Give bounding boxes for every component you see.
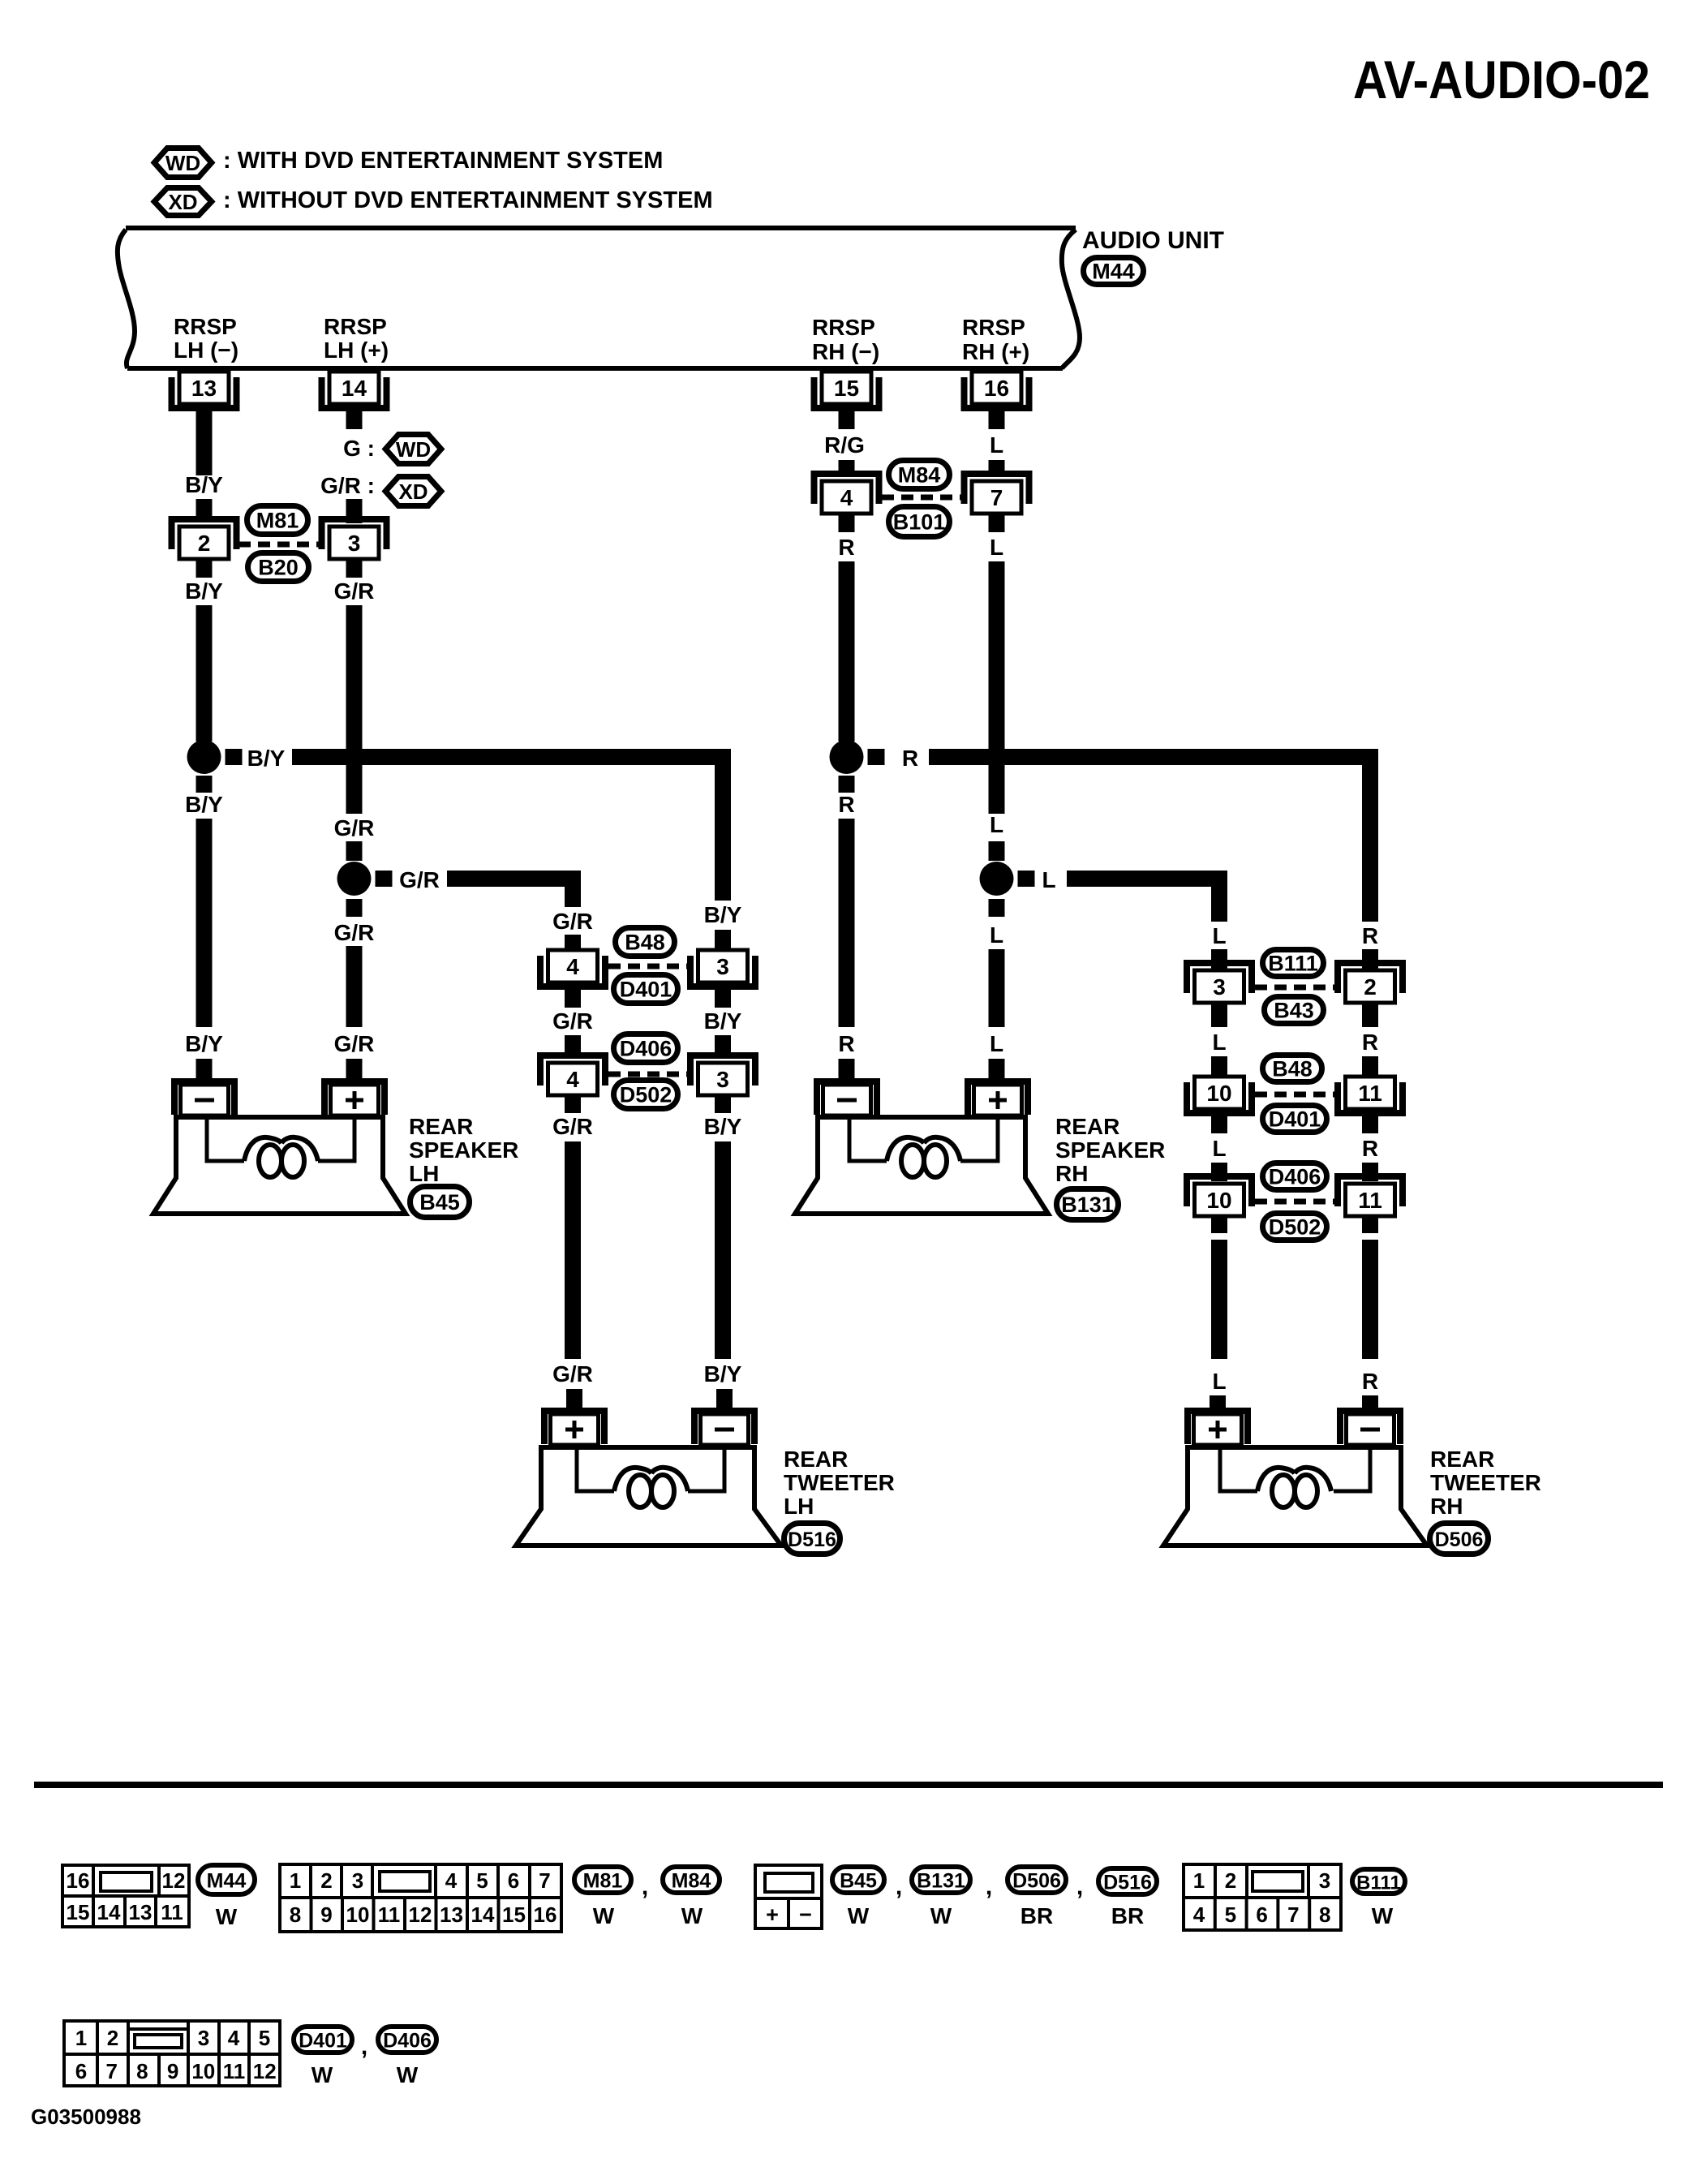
- wire G/R stub above connector 4: [565, 935, 581, 948]
- rear tweeter RH body: [1163, 1447, 1427, 1546]
- svg-text:10: 10: [191, 2059, 215, 2083]
- wire L branch horizontal and corner down: [1067, 879, 1219, 922]
- wire L stub: [1211, 1056, 1227, 1075]
- svg-text:11: 11: [1358, 1188, 1382, 1213]
- wire L stub: [1211, 1163, 1227, 1181]
- svg-text:B/Y: B/Y: [185, 472, 223, 497]
- svg-text:,: ,: [986, 1873, 992, 1900]
- connector id D406: [1263, 1163, 1327, 1190]
- inline connector link D406/D502: [608, 1072, 687, 1077]
- rear tweeter LH terminal -: [694, 1411, 754, 1445]
- rear speaker LH coil: [259, 1145, 281, 1177]
- junction node B/Y: [187, 740, 221, 774]
- connector id D502: [1263, 1214, 1327, 1240]
- svg-text:D506: D506: [1012, 1870, 1061, 1893]
- svg-text:M84: M84: [898, 463, 941, 488]
- svg-text:D502: D502: [620, 1083, 672, 1107]
- wire G/R stub above connector 4 second: [565, 1035, 581, 1055]
- svg-text:G/R: G/R: [334, 815, 375, 840]
- wire B/Y between connectors: [715, 984, 731, 1008]
- svg-text:G/R: G/R: [334, 578, 375, 604]
- svg-text:3: 3: [348, 531, 361, 556]
- svg-text:D506: D506: [1435, 1528, 1484, 1551]
- svg-text:B/Y: B/Y: [247, 746, 286, 771]
- wire L stub above connector 3: [1211, 949, 1227, 969]
- inline connector link D406/D502 right: [1255, 1199, 1334, 1205]
- rear tweeter LH label: [784, 1447, 895, 1519]
- wire B/Y stub above connector 2: [196, 499, 213, 520]
- wire B/Y down to speaker: [196, 819, 213, 1027]
- connector id D516 face: [1098, 1868, 1157, 1894]
- svg-text:L: L: [990, 535, 1003, 560]
- svg-text:15: 15: [67, 1900, 90, 1924]
- svg-text:10: 10: [346, 1902, 370, 1927]
- wire R down to speaker: [839, 819, 855, 1027]
- connector B48/D401 pin 3: [690, 950, 755, 987]
- svg-text:4: 4: [566, 954, 579, 979]
- connector id D401 face: [294, 2027, 352, 2053]
- wire B/Y stub above connector 3 second: [715, 1035, 731, 1055]
- svg-text:B131: B131: [1061, 1193, 1114, 1217]
- rear speaker LH internal wiring: [207, 1117, 244, 1161]
- wire G/R down to speaker: [346, 946, 363, 1027]
- svg-text:R: R: [1362, 1030, 1378, 1055]
- junction node R: [830, 740, 864, 774]
- connector id B131 face: [912, 1867, 970, 1893]
- wire G/R stub into speaker terminal: [346, 1059, 363, 1079]
- svg-text:B131: B131: [917, 1870, 965, 1893]
- wire R stub below junction: [839, 776, 855, 793]
- svg-text:R: R: [1362, 923, 1378, 948]
- svg-text:13: 13: [129, 1900, 153, 1924]
- svg-text:RH: RH: [1430, 1494, 1463, 1519]
- svg-text:8: 8: [290, 1902, 301, 1927]
- svg-text:R: R: [902, 746, 918, 771]
- svg-text:B101: B101: [893, 510, 946, 535]
- svg-text:D516: D516: [788, 1528, 836, 1551]
- connector face B111: [1184, 1864, 1341, 1930]
- svg-text:RH: RH: [1055, 1161, 1088, 1186]
- wire G/R long down to tweeter: [565, 1141, 581, 1359]
- rear tweeter LH coil: [629, 1475, 651, 1507]
- wire L long down to tweeter: [1211, 1216, 1227, 1233]
- svg-text:2: 2: [107, 2026, 118, 2050]
- svg-text:9: 9: [167, 2059, 178, 2083]
- svg-text:12: 12: [162, 1868, 186, 1893]
- connector id D506 face: [1008, 1867, 1066, 1893]
- inline connector link B48/D401: [608, 964, 687, 969]
- svg-text:B/Y: B/Y: [185, 1031, 223, 1056]
- wire G/R stub above junction: [346, 841, 363, 861]
- svg-text:5: 5: [476, 1868, 488, 1893]
- svg-text:1: 1: [1193, 1868, 1205, 1893]
- wire R stub: [1362, 1163, 1378, 1181]
- svg-text:B/Y: B/Y: [185, 792, 223, 817]
- svg-text:B45: B45: [419, 1190, 460, 1215]
- connector M81/B20 pin 3: [322, 519, 387, 559]
- svg-text:,: ,: [1076, 1873, 1083, 1900]
- wire G/R branch dash after junction: [376, 871, 393, 887]
- wire B/Y below connector: [715, 1095, 731, 1113]
- svg-text:11: 11: [223, 2059, 246, 2083]
- audio unit pin 14: [322, 372, 387, 408]
- connector id D506: [1430, 1524, 1489, 1554]
- svg-text:AV-AUDIO-02: AV-AUDIO-02: [1353, 49, 1650, 110]
- svg-text:R: R: [1362, 1369, 1378, 1394]
- connector id D401: [1263, 1106, 1327, 1133]
- svg-text:R: R: [838, 1031, 854, 1056]
- svg-text:: WITH DVD ENTERTAINMENT SYSTE: : WITH DVD ENTERTAINMENT SYSTEM: [223, 148, 663, 174]
- connector id B45 face: [832, 1867, 884, 1893]
- svg-text:REAR: REAR: [409, 1114, 473, 1139]
- svg-text:LH (+): LH (+): [324, 337, 389, 363]
- rear speaker LH label: [409, 1114, 518, 1186]
- svg-text:B/Y: B/Y: [704, 1114, 742, 1139]
- audio unit pin 16: [965, 372, 1029, 408]
- rear speaker LH terminal -: [174, 1081, 234, 1116]
- connector D406/D502 pin 11: [1338, 1176, 1403, 1216]
- wire L stub into speaker terminal: [989, 1059, 1005, 1079]
- wire L down to junction: [989, 561, 1005, 814]
- svg-text:3: 3: [1319, 1868, 1330, 1893]
- svg-text:RH (−): RH (−): [812, 339, 879, 364]
- wire G/R stub above connector 3: [346, 499, 363, 523]
- svg-text:D516: D516: [1103, 1872, 1152, 1894]
- audio unit pin 13: [172, 372, 237, 408]
- wire G/R branch horizontal and corner down: [447, 879, 573, 907]
- inline connector link B48/D401 right: [1255, 1092, 1334, 1098]
- svg-text:−: −: [799, 1902, 812, 1927]
- connector face speaker terminals: [755, 1865, 822, 1928]
- svg-text:9: 9: [320, 1902, 332, 1927]
- connector M84/B101 pin 7: [965, 474, 1029, 514]
- wire B/Y branch dash after junction: [226, 749, 243, 765]
- svg-text:RRSP: RRSP: [962, 315, 1025, 340]
- svg-text:7: 7: [990, 485, 1003, 510]
- wire R stub into speaker terminal: [839, 1059, 855, 1079]
- wire B/Y stub into tweeter terminal: [716, 1389, 733, 1412]
- svg-text:RRSP: RRSP: [174, 314, 237, 339]
- pin label RRSP RH (+): [962, 315, 1029, 364]
- option symbol XD: [385, 477, 441, 506]
- svg-text:13: 13: [191, 376, 217, 401]
- rear tweeter RH label: [1430, 1447, 1541, 1519]
- separator line: [34, 1782, 1663, 1788]
- svg-text:D406: D406: [383, 2030, 432, 2053]
- rear tweeter RH internal wiring: [1220, 1447, 1257, 1491]
- svg-text:14: 14: [342, 376, 367, 401]
- svg-text:SPEAKER: SPEAKER: [409, 1137, 518, 1163]
- wire R between connectors: [1362, 1111, 1378, 1133]
- wire L between connectors: [1211, 1111, 1227, 1133]
- connector B111/B43 pin 2: [1338, 963, 1403, 1003]
- svg-text:TWEETER: TWEETER: [1430, 1470, 1541, 1495]
- connector id B101: [889, 507, 950, 537]
- connector id D406: [614, 1034, 678, 1063]
- svg-text:3: 3: [716, 1067, 729, 1092]
- svg-text:4: 4: [445, 1868, 458, 1893]
- svg-text:B/Y: B/Y: [704, 1361, 742, 1386]
- svg-text:2: 2: [1225, 1868, 1236, 1893]
- connector id M44: [1084, 258, 1144, 285]
- svg-text:D502: D502: [1269, 1215, 1321, 1240]
- svg-text:,: ,: [361, 2033, 367, 2060]
- svg-text:3: 3: [352, 1868, 363, 1893]
- audio unit box: [118, 228, 1080, 368]
- svg-text:W: W: [848, 1903, 870, 1928]
- svg-text:6: 6: [75, 2059, 87, 2083]
- svg-text:1: 1: [290, 1868, 301, 1893]
- svg-text:4: 4: [228, 2026, 240, 2050]
- svg-text:L: L: [1212, 1136, 1226, 1161]
- wire B/Y long down to tweeter: [715, 1141, 731, 1359]
- rear speaker RH body: [795, 1117, 1048, 1214]
- connector id B111: [1263, 950, 1324, 977]
- svg-text:+: +: [766, 1902, 779, 1927]
- svg-text:D406: D406: [620, 1037, 672, 1061]
- svg-text:L: L: [990, 812, 1003, 837]
- wire L branch dash after junction: [1018, 871, 1035, 887]
- svg-text:D401: D401: [1269, 1107, 1321, 1132]
- svg-text:W: W: [681, 1903, 703, 1928]
- legend symbol XD: [154, 188, 212, 216]
- svg-text:L: L: [990, 922, 1003, 948]
- connector D406/D502 pin 3: [690, 1055, 755, 1095]
- connector id D502: [614, 1081, 678, 1109]
- svg-text:B43: B43: [1274, 999, 1314, 1023]
- connector B111/B43 pin 3: [1187, 963, 1252, 1003]
- svg-text:XD: XD: [398, 479, 428, 504]
- wire G/R below connector: [565, 1095, 581, 1113]
- svg-text:R: R: [838, 535, 854, 560]
- wire R stub above connector 2: [1362, 949, 1378, 969]
- svg-text:RRSP: RRSP: [324, 314, 387, 339]
- svg-text:6: 6: [1256, 1902, 1267, 1927]
- svg-text:G/R: G/R: [552, 1008, 593, 1034]
- connector id M81 face: [574, 1867, 631, 1893]
- rear speaker RH terminal +: [968, 1081, 1028, 1116]
- wire G/R below connector 3: [346, 559, 363, 578]
- svg-text:16: 16: [984, 376, 1009, 401]
- svg-text:W: W: [930, 1903, 952, 1928]
- svg-text:15: 15: [834, 376, 859, 401]
- connector id B48: [616, 928, 675, 957]
- svg-text:G/R: G/R: [552, 909, 593, 934]
- rear speaker RH terminal -: [817, 1081, 877, 1116]
- svg-text:W: W: [312, 2062, 333, 2087]
- svg-text:M44: M44: [1092, 260, 1135, 284]
- wire G/R stub into tweeter terminal: [566, 1389, 582, 1412]
- connector id B20: [248, 553, 309, 582]
- junction node G/R: [337, 862, 372, 896]
- rear speaker RH internal wiring: [849, 1117, 887, 1161]
- svg-text:2: 2: [1364, 974, 1377, 1000]
- svg-text:11: 11: [378, 1902, 401, 1927]
- wire R between connectors: [1362, 1004, 1378, 1027]
- connector id M84: [889, 461, 950, 489]
- svg-text:,: ,: [642, 1873, 648, 1900]
- wire L below connector 7: [989, 514, 1005, 532]
- svg-text:3: 3: [716, 954, 729, 979]
- svg-text:G/R: G/R: [552, 1361, 593, 1386]
- rear tweeter RH terminal -: [1340, 1411, 1400, 1445]
- svg-text:B45: B45: [840, 1870, 877, 1893]
- svg-text:L: L: [1212, 1030, 1226, 1055]
- connector id B43: [1265, 997, 1324, 1024]
- svg-text:4: 4: [566, 1067, 579, 1092]
- svg-text:4: 4: [1193, 1902, 1205, 1927]
- rear speaker LH body: [153, 1117, 406, 1214]
- svg-text:M44: M44: [207, 1870, 247, 1893]
- audio unit pin 15: [814, 372, 879, 408]
- svg-text:W: W: [593, 1903, 615, 1928]
- svg-text:XD: XD: [168, 190, 197, 214]
- svg-text:RH (+): RH (+): [962, 339, 1029, 364]
- svg-text:R: R: [1362, 1136, 1378, 1161]
- rear speaker RH label: [1055, 1114, 1165, 1186]
- connector face D401/D406: [64, 2021, 280, 2086]
- svg-text:3: 3: [198, 2026, 209, 2050]
- svg-text:L: L: [990, 1031, 1003, 1056]
- wire L stub above connector 7: [989, 460, 1005, 475]
- svg-text:8: 8: [136, 2059, 148, 2083]
- connector id M84 face: [663, 1867, 720, 1893]
- svg-text:R/G: R/G: [824, 432, 865, 458]
- wire from pin 15: [839, 406, 855, 429]
- svg-text:WD: WD: [396, 437, 431, 462]
- svg-text:W: W: [1372, 1903, 1394, 1928]
- wire B/Y stub into speaker terminal: [196, 1059, 213, 1079]
- svg-text:12: 12: [409, 1902, 432, 1927]
- wire L stub into tweeter terminal: [1210, 1395, 1226, 1415]
- svg-text:1: 1: [75, 2026, 87, 2050]
- svg-text:B/Y: B/Y: [185, 578, 223, 604]
- svg-text:G03500988: G03500988: [31, 2104, 141, 2129]
- wire R branch dash after junction: [868, 749, 885, 765]
- wire L stub above junction: [989, 841, 1005, 861]
- svg-text:L: L: [990, 432, 1003, 458]
- svg-text:5: 5: [1225, 1902, 1236, 1927]
- svg-text:G/R: G/R: [334, 1031, 375, 1056]
- rear tweeter LH body: [516, 1447, 781, 1546]
- svg-text:4: 4: [840, 485, 853, 510]
- svg-text:M81: M81: [583, 1870, 623, 1893]
- inline connector link M81/B20: [238, 542, 323, 548]
- inline connector link B111/B43: [1255, 985, 1334, 991]
- svg-text:7: 7: [105, 2059, 117, 2083]
- svg-text:B48: B48: [625, 931, 665, 955]
- wire B/Y below connector 2: [196, 559, 213, 578]
- rear speaker LH terminal +: [324, 1081, 385, 1116]
- svg-text:3: 3: [1213, 974, 1226, 1000]
- svg-text:16: 16: [534, 1902, 557, 1927]
- legend symbol WD: [154, 148, 212, 178]
- svg-text:REAR: REAR: [784, 1447, 848, 1472]
- svg-text:B48: B48: [1272, 1057, 1313, 1081]
- svg-text:BR: BR: [1021, 1903, 1053, 1928]
- svg-text:B111: B111: [1356, 1872, 1401, 1894]
- svg-text:REAR: REAR: [1430, 1447, 1494, 1472]
- rear tweeter LH terminal +: [544, 1411, 604, 1445]
- svg-text:B/Y: B/Y: [704, 902, 742, 927]
- svg-text:D401: D401: [299, 2030, 347, 2053]
- svg-text:16: 16: [67, 1868, 90, 1893]
- svg-text:D406: D406: [1269, 1165, 1321, 1189]
- connector face M81/M84: [280, 1864, 561, 1932]
- svg-text:11: 11: [1358, 1081, 1382, 1106]
- connector D406/D502 pin 4: [540, 1055, 605, 1095]
- svg-text:G/R: G/R: [399, 867, 440, 892]
- svg-text:7: 7: [539, 1868, 550, 1893]
- svg-text:10: 10: [1206, 1188, 1231, 1213]
- connector id B131: [1057, 1189, 1119, 1220]
- svg-text:14: 14: [471, 1902, 495, 1927]
- svg-text:8: 8: [1319, 1902, 1330, 1927]
- connector id D516: [784, 1524, 840, 1554]
- svg-text:D401: D401: [620, 978, 672, 1002]
- wire B/Y stub below junction: [196, 776, 213, 793]
- svg-text:B111: B111: [1268, 952, 1318, 976]
- svg-text:,: ,: [896, 1873, 902, 1900]
- rear tweeter RH terminal +: [1188, 1411, 1248, 1445]
- svg-text:M81: M81: [256, 509, 299, 533]
- svg-text:SPEAKER: SPEAKER: [1055, 1137, 1165, 1163]
- svg-text:L: L: [1212, 923, 1226, 948]
- svg-text:WD: WD: [165, 151, 200, 175]
- svg-text:11: 11: [161, 1900, 183, 1924]
- svg-text:M84: M84: [672, 1870, 711, 1893]
- pin label RRSP LH (+): [324, 314, 389, 363]
- junction node L: [980, 862, 1014, 896]
- wire R branch horizontal and corner down: [929, 757, 1370, 922]
- wire G/R stub below junction: [346, 899, 363, 917]
- wire from pin 14: [346, 406, 363, 429]
- svg-text:L: L: [1212, 1369, 1226, 1394]
- svg-text:: WITHOUT DVD ENTERTAINMENT SY: : WITHOUT DVD ENTERTAINMENT SYSTEM: [223, 187, 713, 213]
- option symbol WD: [385, 435, 441, 464]
- wire G/R down to junction: [346, 605, 363, 814]
- rear speaker RH coil: [901, 1145, 924, 1177]
- connector B48/D401 pin 10: [1187, 1077, 1252, 1113]
- wire L down to speaker: [989, 949, 1005, 1027]
- connector D406/D502 pin 10: [1187, 1176, 1252, 1216]
- svg-text:L: L: [1042, 867, 1055, 892]
- wire B/Y from pin 13: [196, 406, 213, 475]
- connector B48/D401 pin 4: [540, 950, 605, 987]
- wire L between connectors: [1211, 1004, 1227, 1027]
- svg-text:TWEETER: TWEETER: [784, 1470, 895, 1495]
- connector id B48: [1263, 1055, 1322, 1082]
- connector B48/D401 pin 11: [1338, 1077, 1403, 1113]
- connector id M44 face: [198, 1865, 255, 1894]
- wire L stub below junction: [989, 899, 1005, 917]
- svg-text:13: 13: [440, 1902, 463, 1927]
- svg-text:LH: LH: [409, 1161, 439, 1186]
- svg-text:2: 2: [198, 531, 211, 556]
- svg-text:REAR: REAR: [1055, 1114, 1119, 1139]
- svg-text:AUDIO UNIT: AUDIO UNIT: [1082, 227, 1224, 254]
- connector face M44: [62, 1865, 189, 1927]
- connector id B111 face: [1352, 1869, 1405, 1894]
- wire G/R between connectors: [565, 984, 581, 1008]
- connector M81/B20 pin 2: [172, 519, 237, 559]
- svg-text:LH: LH: [784, 1494, 814, 1519]
- wire R stub into tweeter terminal: [1362, 1395, 1378, 1415]
- pin label RRSP LH (-): [174, 314, 238, 363]
- rear tweeter RH coil: [1272, 1475, 1295, 1507]
- inline connector link M84/B101: [882, 495, 964, 501]
- connector id D406 face: [378, 2027, 436, 2053]
